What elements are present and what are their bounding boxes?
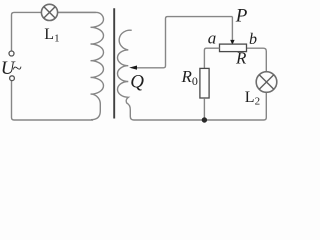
- svg-text:L2: L2: [245, 89, 260, 108]
- svg-text:L1: L1: [44, 26, 59, 45]
- svg-text:b: b: [249, 31, 257, 48]
- svg-text:P: P: [235, 6, 248, 27]
- svg-text:Q: Q: [130, 72, 144, 93]
- svg-text:a: a: [208, 29, 217, 48]
- svg-text:R: R: [235, 49, 247, 68]
- svg-text:~: ~: [13, 59, 22, 78]
- svg-text:R0: R0: [181, 67, 198, 88]
